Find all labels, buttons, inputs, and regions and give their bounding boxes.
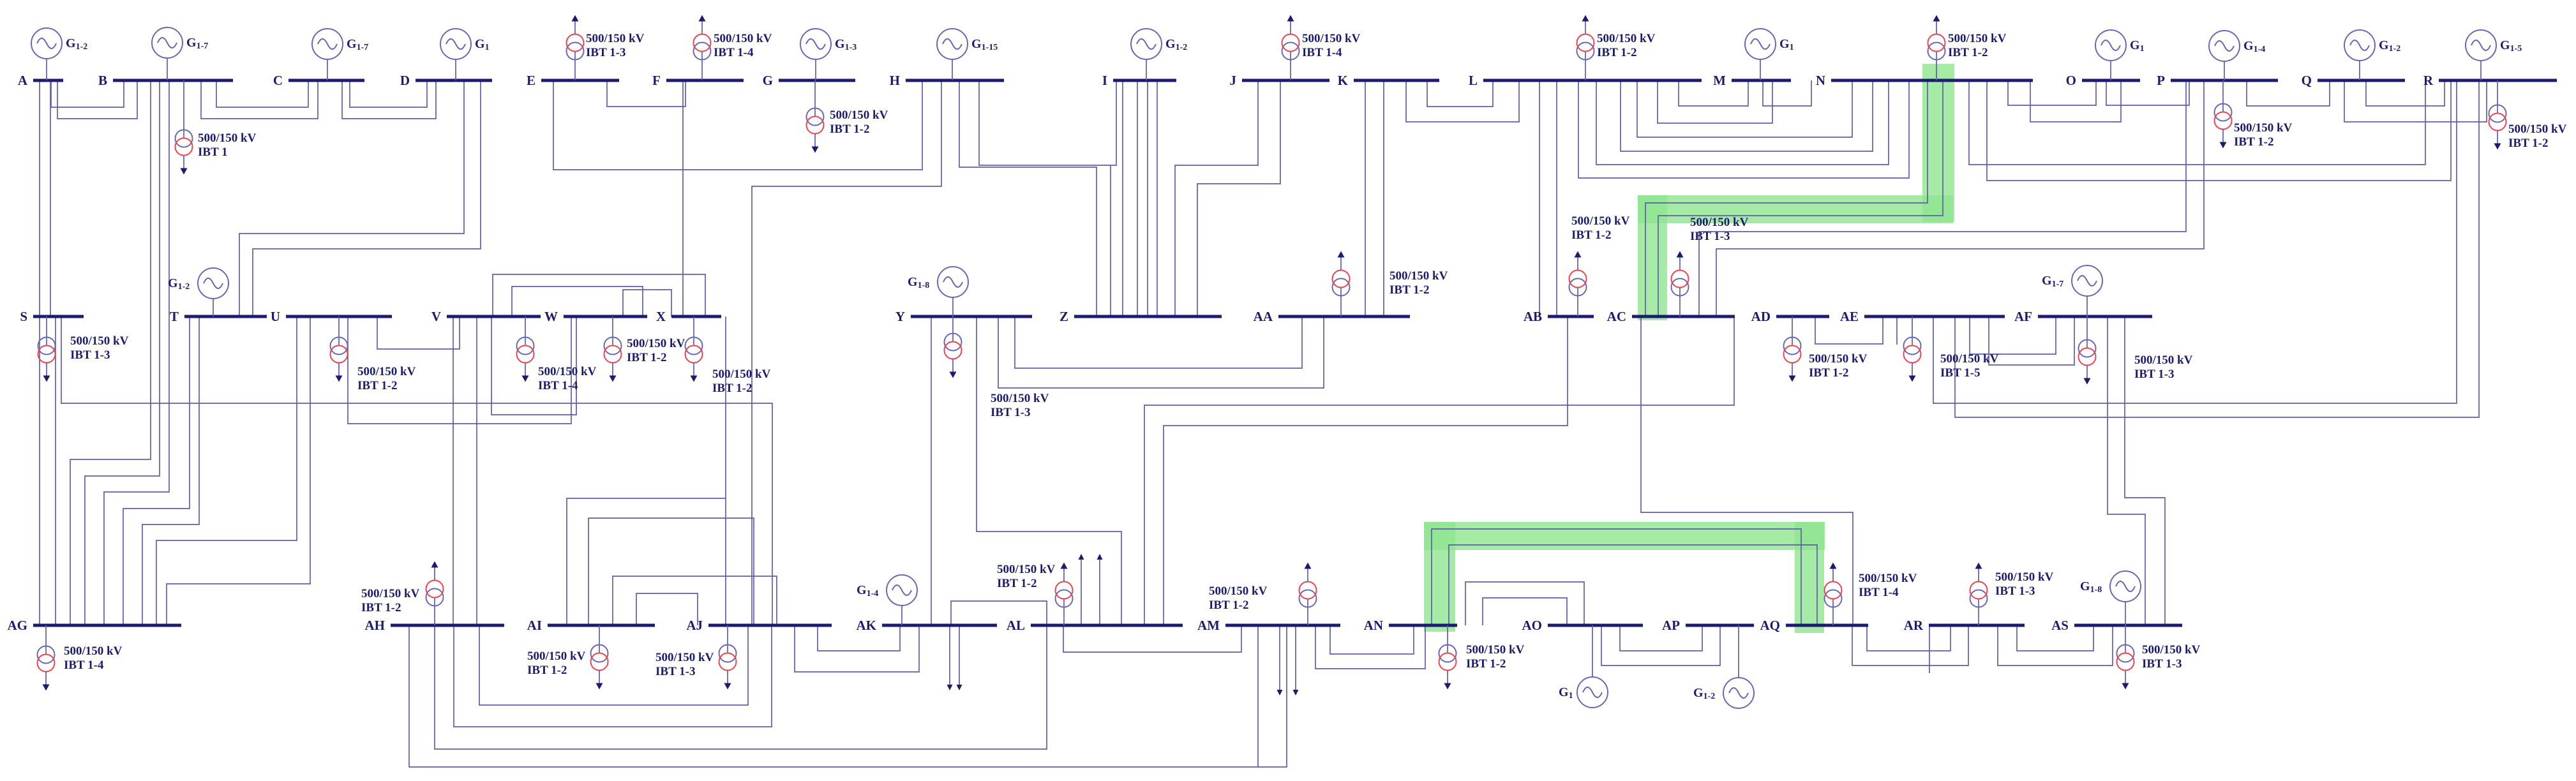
wire P-Q 1 [2247,80,2330,106]
wire L-N 1 [1637,80,1852,137]
wire AM-AN under 2 [1315,625,1425,669]
svg-text:AG: AG [8,618,28,633]
generator G1-3 (bus G) [800,29,857,80]
svg-text:500/150 kV: 500/150 kV [357,365,416,378]
wire AN-AO over 2 [1483,598,1567,625]
bus AD [1776,315,1829,318]
wire A-S 2 [50,80,51,316]
wire AN-AQ green wire 1 [1432,529,1801,625]
bus K [1354,79,1439,82]
svg-text:500/150 kV: 500/150 kV [1948,32,2007,45]
svg-text:IBT 1-3: IBT 1-3 [1690,230,1730,243]
svg-text:IBT 1-4: IBT 1-4 [714,46,754,59]
bus Y [911,315,1032,318]
transformer IBT 1-2 (bus X) [685,316,771,395]
wire B-C 2 [201,80,318,119]
wire AL-AM under [1063,625,1241,652]
wire O-P 1 [2106,80,2189,105]
wire AR-AS under 2 [1998,625,2113,666]
svg-text:IBT 1: IBT 1 [198,145,228,159]
bus R [2439,79,2557,82]
transformer IBT 1-2 (bus G) [807,80,888,153]
svg-text:IBT 1-2: IBT 1-2 [361,601,401,614]
svg-text:IBT 1-2: IBT 1-2 [357,379,397,392]
wire N-AC green wire 1 [1645,80,1928,316]
highlighted path N-AC segment 2 (horizontal) [1638,195,1953,223]
bus Z [1074,315,1222,318]
wire K-L 2 [1406,80,1519,122]
bus AK [882,624,997,627]
wire I-Z 2 [1137,80,1138,316]
wire M-N [1763,80,1811,106]
generator G1-15 (bus H) [937,29,998,80]
wire AJ-AK under 1 [818,625,900,651]
wire S-AJ long [61,316,772,625]
wire AJ-AK under 2 [795,625,919,672]
transformer IBT 1-3 (bus AR) [1970,563,2054,626]
transformer IBT 1-4 (bus V) [517,316,597,392]
bus M [1732,79,1791,82]
wire AK-AL over [951,601,1047,625]
wire AQ-AR under 1 [1867,625,1951,651]
svg-text:W: W [544,309,558,324]
wire K-AA 2 [1383,80,1384,316]
wire Y-AA 1 [1015,316,1302,368]
wire AH-AL loop [435,625,1047,749]
svg-text:IBT 1-2: IBT 1-2 [2508,137,2548,150]
bus A [33,79,63,82]
svg-text:500/150 kV: 500/150 kV [714,32,772,45]
svg-text:IBT 1-3: IBT 1-3 [586,46,625,59]
bus W [564,315,647,318]
svg-text:500/150 kV: 500/150 kV [991,392,1049,405]
transformer IBT 1-2 (bus AH) [361,562,444,626]
svg-text:500/150 kV: 500/150 kV [1940,352,1999,366]
svg-text:S: S [20,309,27,324]
load arrow below AM 1 [1277,625,1283,695]
transformer IBT 1-3 (bus AF) [2079,316,2193,385]
svg-text:500/150 kV: 500/150 kV [1995,570,2054,584]
wire Q-R 1 [2366,80,2445,106]
svg-text:G: G [763,73,773,88]
svg-text:Q: Q [2302,73,2312,88]
svg-text:O: O [2066,73,2076,88]
bus G [779,79,855,82]
transformer IBT 1-2 (bus AD) [1784,316,1868,382]
wire N-O 2 [2030,80,2121,122]
transformer IBT 1-2 (bus R) [2489,80,2567,150]
bus S [33,315,84,318]
transformer IBT 1-2 (bus AM) [1209,563,1317,626]
svg-text:I: I [1102,73,1107,88]
svg-text:AP: AP [1662,618,1680,633]
wire AC-AL long [1144,316,1734,625]
generator G1-2 (bus A) [31,28,87,80]
svg-text:IBT 1-4: IBT 1-4 [538,379,578,392]
svg-text:IBT 1-3: IBT 1-3 [991,406,1030,419]
wire D-T 2 [253,80,481,316]
svg-text:AF: AF [2014,309,2032,324]
svg-text:500/150 kV: 500/150 kV [361,587,420,600]
bus P [2171,79,2278,82]
svg-text:500/150 kV: 500/150 kV [70,334,129,348]
generator G1-4 (bus P) [2209,31,2265,80]
svg-text:500/150 kV: 500/150 kV [997,563,1056,576]
wire C-D 2 [342,80,436,119]
transformer IBT 1-3 (bus Y) [945,316,1049,419]
wire A-B 2 [57,80,137,119]
svg-text:AK: AK [857,618,877,633]
bus AM [1225,624,1340,627]
highlighted path N-AC segment 3 (vertical at AC) [1638,195,1667,320]
wire AO-AP under 1 [1620,625,1702,651]
svg-text:AB: AB [1524,309,1542,324]
svg-text:500/150 kV: 500/150 kV [2142,643,2201,657]
transformer IBT 1-4 (bus F) [694,15,772,81]
bus AQ [1786,624,1868,627]
wire D-T 1 [239,80,464,316]
bus Q [2318,79,2405,82]
wire H-Z 2 [1110,165,1111,316]
bus O [2082,79,2140,82]
generator G1-2 (bus T) [168,268,228,316]
wire AN-AO over 1 [1465,582,1584,625]
wire V-W under long [491,316,576,415]
transformer IBT 1-3 (bus AS) [2117,625,2201,690]
wire B-AG staircase 1 [70,80,151,625]
wire AM long stub [1257,625,1259,767]
svg-text:IBT 1-4: IBT 1-4 [1859,586,1899,599]
svg-text:B: B [98,73,107,88]
wire P-AC 1 [1699,80,2186,316]
transformer IBT 1-3 (bus E) [567,15,645,81]
svg-text:IBT 1-2: IBT 1-2 [527,664,567,677]
svg-text:P: P [2157,73,2165,88]
transformer IBT 1-2 (bus AL) [997,563,1073,626]
line arrow above AL 2 [1097,554,1103,625]
transformer IBT 1-2 (bus AN) [1439,625,1525,690]
bus AF [2038,315,2152,318]
svg-text:T: T [170,309,179,324]
svg-text:500/150 kV: 500/150 kV [1466,643,1525,657]
bus AE [1864,315,2005,318]
svg-text:500/150 kV: 500/150 kV [627,337,685,350]
wire AE-AF under 1 [1970,316,2056,354]
svg-text:K: K [1338,73,1349,88]
wire C-D 1 [350,80,427,107]
load arrow below AK 1 [947,625,953,690]
generator G1-8 (bus Y) [908,267,968,316]
bus V [447,315,541,318]
svg-text:Z: Z [1060,309,1068,324]
wire U-W under long [348,316,571,424]
wire T-AG staircase 2 [142,316,199,625]
svg-text:AL: AL [1007,618,1025,633]
wire AR-AS under 1 [2017,625,2093,651]
svg-text:IBT 1-3: IBT 1-3 [70,348,110,362]
transformer IBT 1-2 (bus W) [604,316,685,382]
wire AR stub [1929,625,1930,673]
svg-text:IBT 1-2: IBT 1-2 [1209,599,1248,612]
svg-text:AR: AR [1904,618,1924,633]
bus C [288,79,364,82]
wire U-V under [377,316,460,349]
generator G1-5 (bus R) [2466,30,2522,80]
wire AQ-AR under 2 [1852,625,1968,666]
generator G1 (bus AO) [1559,625,1608,708]
wire AC-AQ long [1641,316,1853,625]
transformer IBT 1-4 (bus AQ) [1825,563,1917,626]
svg-text:IBT 1-2: IBT 1-2 [1597,46,1636,59]
wire L-M 2 [1658,80,1772,123]
wire I-Z 4 [1157,80,1158,316]
wire N-O 1 [2008,80,2096,105]
svg-text:X: X [656,309,666,324]
bus X [671,315,721,318]
svg-text:500/150 kV: 500/150 kV [1690,216,1749,229]
svg-text:IBT 1-3: IBT 1-3 [1995,584,2035,598]
wire K-L 1 [1427,80,1493,107]
svg-text:A: A [18,73,28,88]
bus J [1242,79,1329,82]
svg-text:500/150 kV: 500/150 kV [1809,352,1868,366]
svg-text:IBT 1-2: IBT 1-2 [627,351,666,364]
svg-text:AM: AM [1197,618,1220,633]
wire E-F [607,80,685,107]
bus AB [1548,315,1594,318]
bus AG [33,624,181,627]
wire B-AG staircase 3 [104,80,169,625]
svg-text:AD: AD [1751,309,1771,324]
svg-text:V: V [431,309,441,324]
svg-text:IBT 1-2: IBT 1-2 [1571,228,1611,242]
wire V-AH 1 [453,316,454,625]
bus L [1483,79,1702,82]
bus D [416,79,492,82]
wire J-Z 2 [1197,80,1280,316]
load arrow below AK 2 [957,625,962,690]
svg-text:N: N [1816,73,1825,88]
transformer IBT 1-3 (bus AJ) [655,625,737,690]
wire Y-AK [931,316,932,625]
generator G1 (bus O) [2095,30,2145,80]
wire S-AG 1 [39,316,40,625]
highlighted path AN-AQ segment 2 (horizontal) [1424,522,1825,550]
bus AL [1031,624,1183,627]
svg-text:IBT 1-2: IBT 1-2 [1466,657,1506,671]
wire N-AC green wire 2 [1658,80,1943,316]
svg-text:IBT 1-5: IBT 1-5 [1940,366,1980,380]
wire L-N 4 [1578,80,1909,178]
wire AH-AM loop [409,625,1287,767]
svg-text:AI: AI [527,618,542,633]
wire W-X over [623,290,671,316]
wire AB-AL long [1164,316,1568,625]
wire AM-AN under 1 [1330,625,1414,654]
wire B-AG staircase 2 [85,80,160,625]
generator G1-7 (bus B) [152,27,208,80]
wire H long to AJ [752,80,941,625]
wire U-AG staircase 2 [167,316,310,625]
svg-text:U: U [271,309,280,324]
wire T-AG staircase 1 [123,316,190,625]
svg-text:AN: AN [1364,618,1383,633]
bus AA [1278,315,1410,318]
highlighted path AN-AQ segment 1 (vertical at AN) [1424,522,1455,632]
bus AI [548,624,655,627]
svg-text:AJ: AJ [686,618,703,633]
highlighted path AN-AQ segment 3 (vertical at AQ) [1795,522,1824,633]
wire V-AH 2 [476,316,477,625]
wire B-C 1 [216,80,308,107]
wire AE-AF under 2 [1989,316,2074,365]
bus AH [391,624,504,627]
bus H [906,79,1004,82]
generator G1-8 (bus AS) [2080,571,2141,625]
wire N-R 2 [1987,80,2451,181]
bus F [666,79,744,82]
bus AJ [708,624,832,627]
wire E-H long [553,80,922,170]
wire AD-AE under [1815,316,1883,344]
wire S-AG 2 [55,316,56,625]
bus I [1113,79,1176,82]
svg-text:AO: AO [1522,618,1543,633]
wire X-AJ vertical [725,316,726,498]
svg-text:500/150 kV: 500/150 kV [1209,584,1268,598]
svg-text:500/150 kV: 500/150 kV [527,650,586,663]
svg-text:500/150 kV: 500/150 kV [586,32,645,45]
svg-text:500/150 kV: 500/150 kV [655,651,714,664]
load arrow below AM 2 [1293,625,1299,695]
generator G1-4 (bus AK) [857,575,917,625]
bus U [286,315,392,318]
svg-text:IBT 1-2: IBT 1-2 [712,382,752,395]
svg-text:AH: AH [365,618,386,633]
wire Y-AA 2 [998,316,1324,388]
svg-text:IBT 1-4: IBT 1-4 [64,658,104,672]
svg-text:D: D [400,73,410,88]
transformer IBT 1-2 (bus L) [1577,15,1656,81]
wire L-N 3 [1596,80,1889,165]
wire A-S 1 [39,80,40,316]
wire N-R 1 [1969,80,2425,165]
svg-text:L: L [1469,73,1478,88]
wire Q-R 2 [2344,80,2487,122]
wire J-Z 1 [1175,80,1258,316]
wire R-AE 2 [1955,80,2479,417]
wire AH-AJ loop 1 [454,625,772,727]
wire AI-AJ over 2 [588,518,754,625]
bus T [184,315,267,318]
wire Y-AL [977,316,1121,625]
generator G1-2 (bus AP) [1693,625,1754,708]
transformer IBT 1-2 (bus AA) [1333,251,1448,317]
svg-text:J: J [1230,73,1237,88]
wire AF-AS 2 [2125,316,2165,625]
svg-text:IBT 1-2: IBT 1-2 [1809,366,1848,380]
wire I-Z 3 [1147,80,1148,316]
svg-text:AE: AE [1840,309,1859,324]
svg-text:R: R [2423,73,2434,88]
wire V-W over [512,286,643,316]
svg-text:IBT 1-2: IBT 1-2 [830,123,869,136]
line arrow above AL 1 [1079,554,1084,625]
svg-text:C: C [273,73,283,88]
svg-text:IBT 1-4: IBT 1-4 [1302,46,1342,59]
svg-text:500/150 kV: 500/150 kV [1571,214,1630,228]
generator G1 (bus D) [440,29,490,80]
svg-text:AS: AS [2051,618,2069,633]
svg-text:500/150 kV: 500/150 kV [538,365,597,378]
wire A-B 1 [51,80,124,107]
svg-text:AQ: AQ [1760,618,1781,633]
svg-text:AC: AC [1607,309,1626,324]
wire L-M 1 [1679,80,1748,106]
wire H-I [979,80,1116,165]
transformer IBT 1-2 (bus N) [1928,15,2007,81]
svg-text:IBT 1-3: IBT 1-3 [655,665,695,678]
bus AN [1389,624,1457,627]
svg-text:E: E [527,73,535,88]
bus B [113,79,233,82]
bus N [1831,79,2033,82]
svg-text:500/150 kV: 500/150 kV [2234,121,2293,135]
svg-text:IBT 1-2: IBT 1-2 [1948,46,1988,59]
svg-text:AA: AA [1254,309,1273,324]
generator G1 (bus M) [1745,29,1794,80]
wire I-Z 1 [1122,80,1123,316]
svg-text:500/150 kV: 500/150 kV [712,368,771,381]
bus AP [1686,624,1754,627]
wire AI-AJ over 1 [567,498,726,625]
wire F-X [682,80,684,316]
transformer IBT 1-3 (bus S) [38,316,129,382]
svg-text:F: F [652,73,661,88]
wire L-N 2 [1621,80,1873,151]
wire L-AB 2 [1556,80,1557,316]
wire L-AB 1 [1539,80,1540,316]
wire AO-AP under 2 [1601,625,1720,666]
wire AI-AJ over 3 [613,576,777,625]
bus AO [1548,624,1643,627]
wire AI-AJ over 4 [636,593,698,625]
wire P-AC 2 [1716,80,2204,316]
wire AN-AQ green wire 2 [1449,545,1817,625]
wire K-AA 1 [1365,80,1366,316]
highlighted path N-AC segment 1 (vertical at N) [1922,64,1954,222]
svg-text:IBT 1-3: IBT 1-3 [2142,657,2182,671]
transformer IBT 1-2 (bus AB) [1569,214,1630,316]
wire R-AE 1 [1933,80,2457,403]
svg-text:H: H [890,73,900,88]
bus AR [1929,624,2025,627]
svg-text:M: M [1713,73,1726,88]
svg-text:500/150 kV: 500/150 kV [198,131,257,145]
svg-text:IBT 1-3: IBT 1-3 [2134,368,2174,381]
wire AE stub [1896,316,1898,345]
svg-text:500/150 kV: 500/150 kV [1859,572,1917,585]
svg-text:IBT 1-2: IBT 1-2 [997,577,1037,590]
wire U-AG staircase 1 [156,316,297,625]
transformer IBT 1-4 (bus J) [1282,15,1361,81]
svg-text:500/150 kV: 500/150 kV [2508,123,2567,136]
svg-text:500/150 kV: 500/150 kV [830,108,888,122]
transformer IBT 1-2 (bus P) [2215,80,2293,149]
wire V-X over [493,274,705,316]
transformer IBT 1-2 (bus AI) [527,625,608,690]
svg-text:Y: Y [895,309,905,324]
